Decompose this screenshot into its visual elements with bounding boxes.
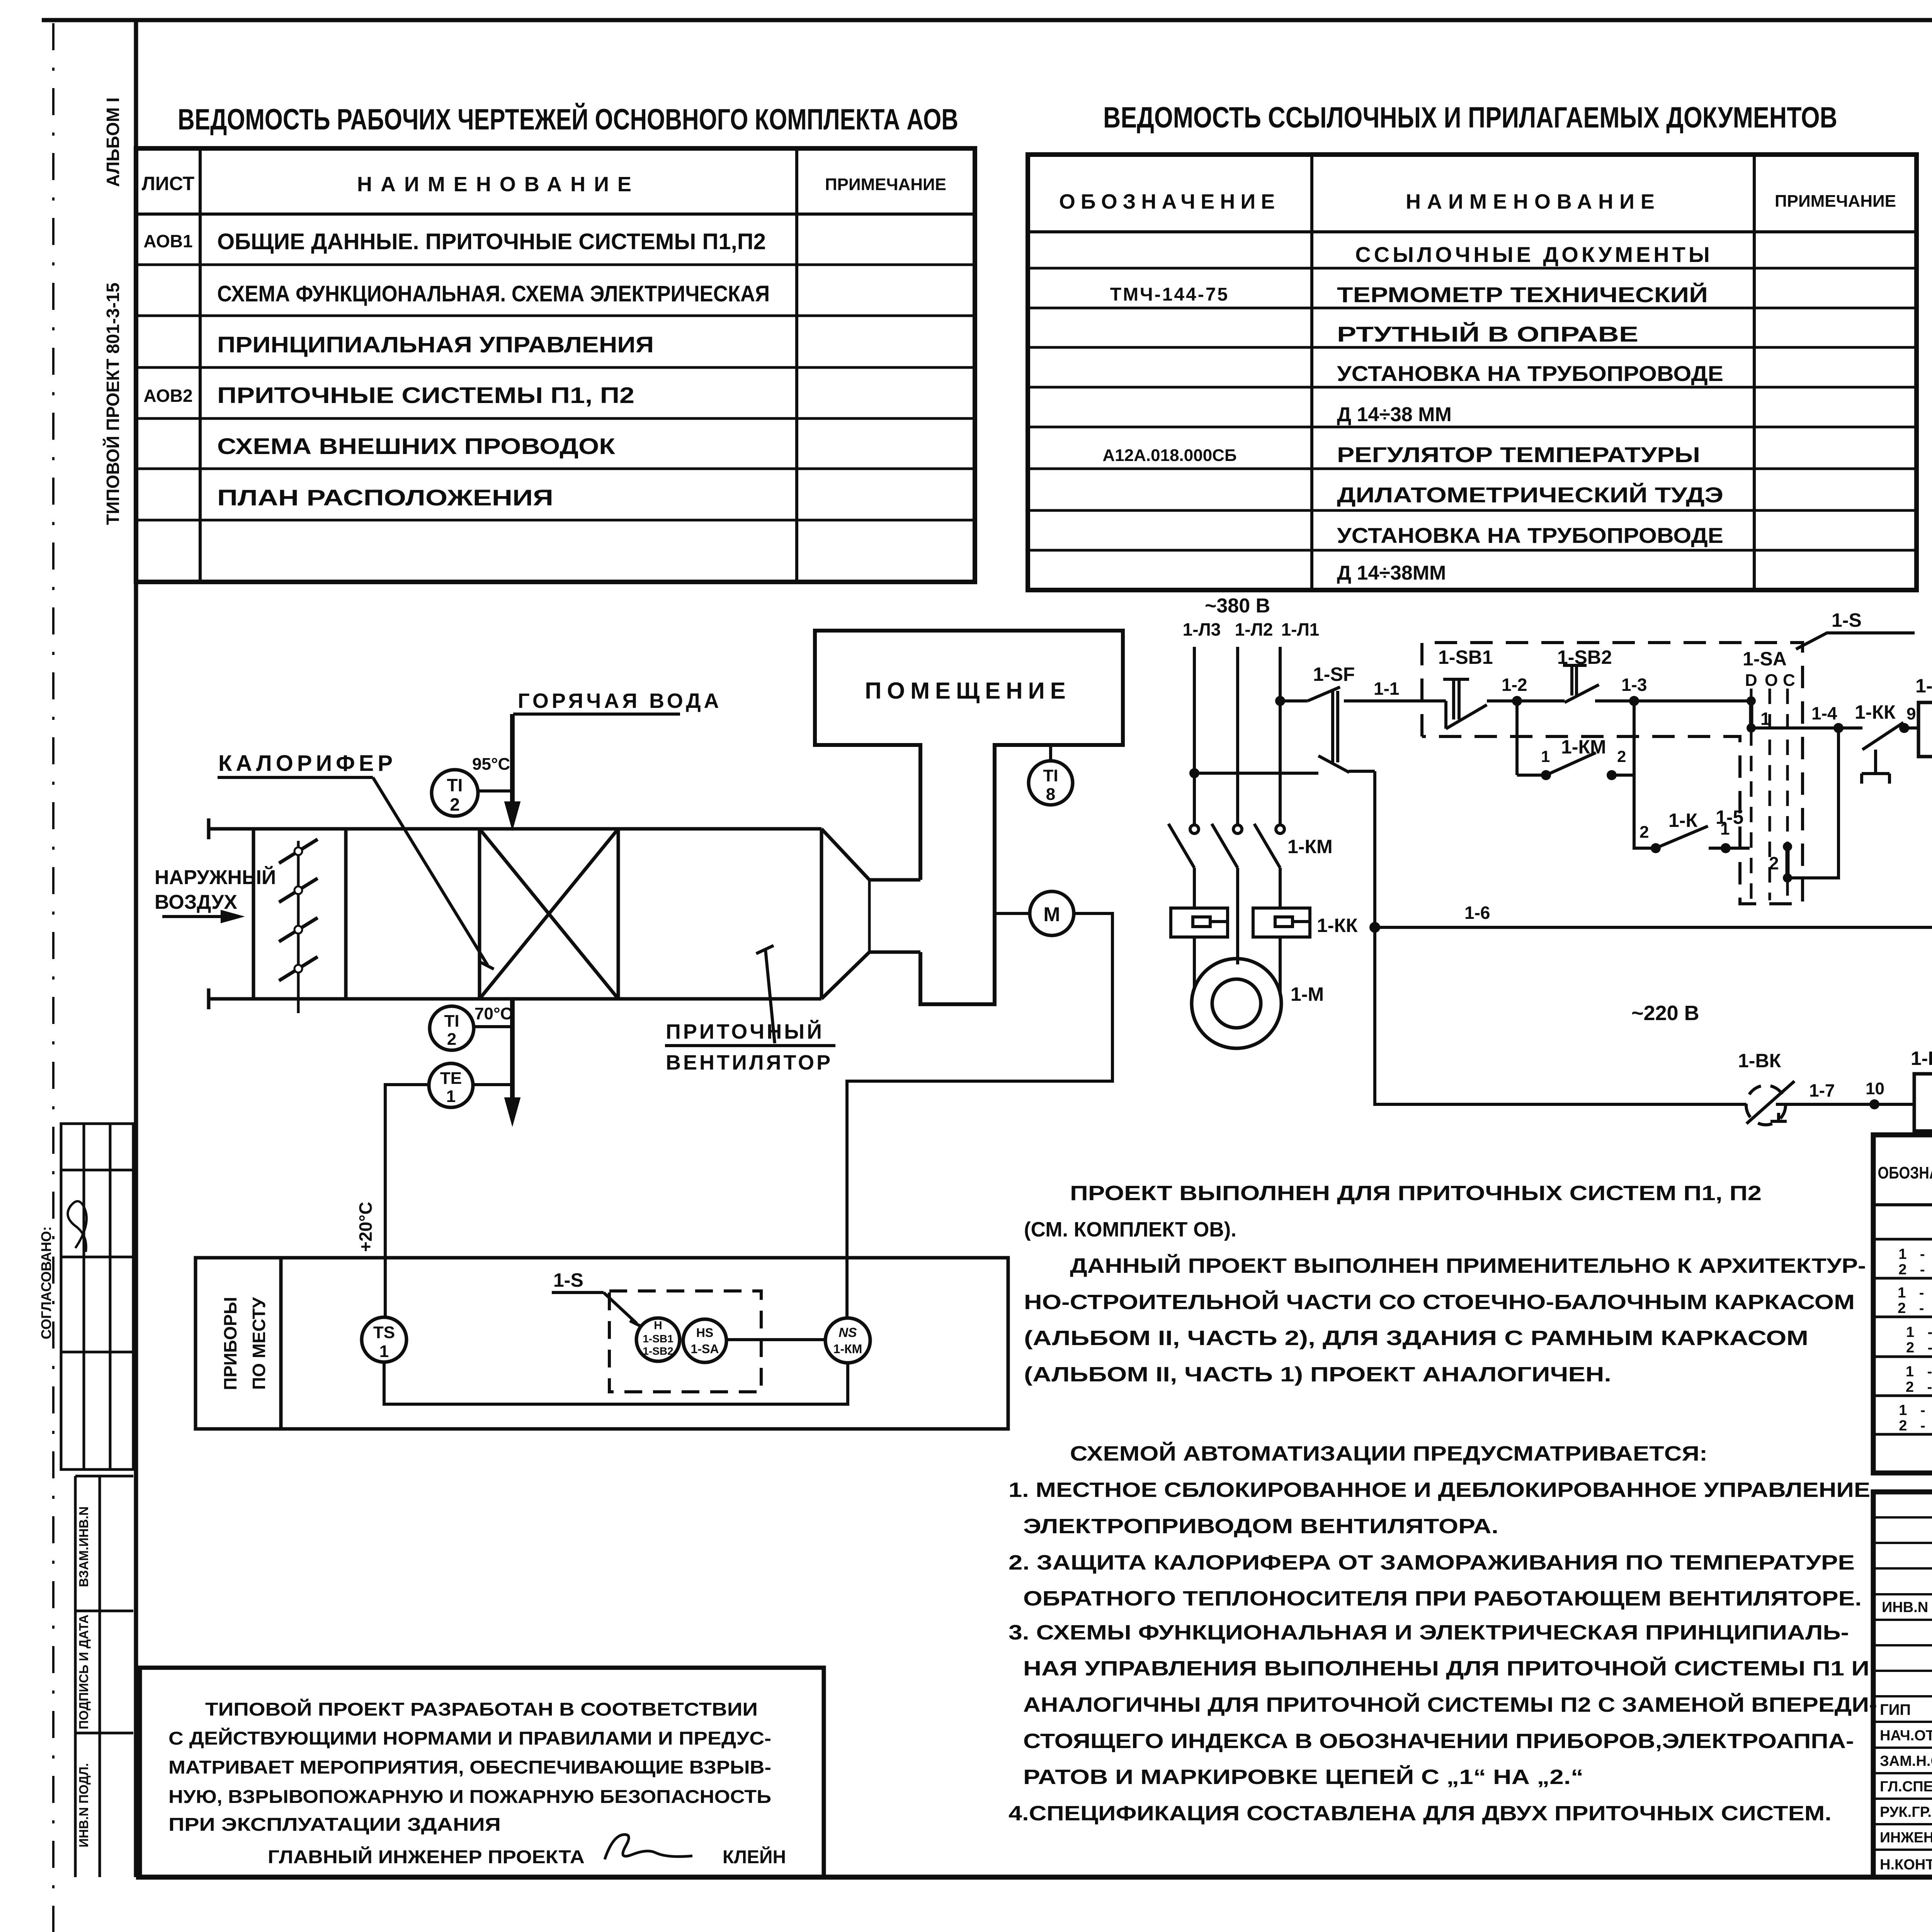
svg-text:ртутный в оправе: ртутный в оправе <box>1337 322 1638 346</box>
svg-text:Примечание: Примечание <box>1775 192 1896 211</box>
svg-text:Лист: Лист <box>142 173 194 194</box>
wire: duct to M <box>995 912 1030 915</box>
left stamp: Согласовано block <box>61 1124 133 1469</box>
wire down-left to regulator circuit <box>1375 927 1746 1104</box>
svg-text:2: 2 <box>450 794 460 815</box>
relay coil 1-К <box>1914 1074 1932 1131</box>
wire 1-1 <box>1344 699 1446 702</box>
svg-text:1-КМ: 1-КМ <box>1561 736 1606 758</box>
svg-text:1: 1 <box>379 1342 389 1361</box>
svg-text:TS: TS <box>373 1323 395 1342</box>
svg-text:1-SB2: 1-SB2 <box>643 1345 673 1357</box>
thermometer TI-2 (70°C) <box>430 1006 512 1050</box>
start button 1-SB1 <box>1443 679 1517 729</box>
svg-text:Д 14÷38 мм: Д 14÷38 мм <box>1337 403 1452 426</box>
temperature regulator contact 1-ВК <box>1746 1081 1794 1125</box>
svg-text:2 - КМ: 2 - КМ <box>1898 1300 1932 1316</box>
wire 1-3 to switch 1-SA <box>1634 699 1751 702</box>
svg-text:1-КК: 1-КК <box>1855 701 1896 723</box>
svg-text:Общие данные. Приточные систем: Общие данные. Приточные системы П1,П2 <box>217 229 766 254</box>
note box: Типовой проект разработан... <box>140 1668 824 1877</box>
switch 1-SA dashed position lines <box>1751 689 1787 900</box>
svg-text:2 - ВК: 2 - ВК <box>1898 1262 1932 1278</box>
svg-text:Данный проект выполнен примени: Данный проект выполнен применительно к а… <box>1070 1254 1866 1277</box>
control tap wire down from SF to node 1-КК <box>1373 771 1376 927</box>
svg-text:1: 1 <box>1760 709 1770 729</box>
svg-text:1-SB2: 1-SB2 <box>1557 646 1612 668</box>
svg-text:АОВ1: АОВ1 <box>143 231 192 251</box>
svg-text:NS: NS <box>838 1325 857 1340</box>
local thermostat TS-1 <box>362 1317 406 1362</box>
svg-text:обратного теплоносителя при ра: обратного теплоносителя при работающем в… <box>1023 1587 1862 1610</box>
svg-text:Подпись и дата: Подпись и дата <box>77 1614 91 1729</box>
svg-text:матривает мероприятия, обеспеч: матривает мероприятия, обеспечивающие вз… <box>168 1757 771 1778</box>
svg-text:2: 2 <box>1769 853 1779 873</box>
node 1-4 <box>1833 723 1844 733</box>
svg-text:План расположения: План расположения <box>217 485 553 510</box>
svg-text:(альбом II, часть 1) проект ан: (альбом II, часть 1) проект аналогичен. <box>1024 1363 1611 1386</box>
svg-text:Нач.отд.: Нач.отд. <box>1880 1728 1932 1744</box>
svg-text:А12А.018.000СБ: А12А.018.000СБ <box>1102 446 1236 465</box>
svg-text:М: М <box>1043 903 1060 926</box>
interlock contact 1-К <box>1656 826 1750 848</box>
svg-text:Д 14÷38мм: Д 14÷38мм <box>1337 562 1446 584</box>
control post 1-S dashed outline <box>1422 643 1803 904</box>
svg-text:1-К: 1-К <box>1668 810 1697 831</box>
svg-text:Рук.гр.: Рук.гр. <box>1880 1804 1932 1820</box>
svg-text:1-3: 1-3 <box>1621 675 1647 695</box>
phase wire 1-Л3 <box>1193 647 1196 825</box>
heater (калорифер) box with X <box>480 829 618 999</box>
svg-text:HS: HS <box>696 1326 713 1340</box>
left stamp: Взам.инв.N / Подпись и дата / Инв.N подл. <box>75 1476 133 1877</box>
svg-text:1 - S: 1 - S <box>1906 1364 1932 1380</box>
svg-text:Наименование: Наименование <box>357 173 640 196</box>
svg-text:8: 8 <box>1046 785 1055 804</box>
svg-text:1-1: 1-1 <box>1374 679 1399 699</box>
svg-text:Схема внешних проводок: Схема внешних проводок <box>217 434 616 459</box>
contactor coil 1-КМ <box>1918 702 1932 757</box>
louver rod <box>297 841 300 1013</box>
svg-text:2: 2 <box>1617 747 1626 765</box>
svg-text:Главный инженер проекта: Главный инженер проекта <box>268 1846 585 1867</box>
svg-text:дилатометрический ТУДЭ: дилатометрический ТУДЭ <box>1337 483 1723 507</box>
svg-text:(альбом II, часть 2), для здан: (альбом II, часть 2), для здания с рамны… <box>1024 1327 1808 1350</box>
svg-text:1: 1 <box>1541 747 1550 765</box>
svg-text:вентилятор: вентилятор <box>666 1051 833 1074</box>
svg-text:TE: TE <box>440 1069 462 1088</box>
thermal relay heaters 1-КК <box>1171 908 1310 993</box>
svg-text:Приточный: Приточный <box>666 1020 824 1043</box>
svg-text:ная управления выполнены для: ная управления выполнены для приточной с… <box>1023 1656 1869 1680</box>
room (Помещение) box <box>815 631 1123 1004</box>
svg-text:1-Л3: 1-Л3 <box>1183 619 1221 639</box>
heating return pipe with arrow <box>505 999 520 1126</box>
svg-text:1-SB1: 1-SB1 <box>1438 646 1493 668</box>
svg-text:Ссылочные документы: Ссылочные документы <box>1355 242 1713 267</box>
wire 1-6 <box>1375 926 1932 929</box>
wire: M to NS relay down-left run <box>847 913 1112 1318</box>
svg-text:1-2: 1-2 <box>1502 675 1527 695</box>
fan section outlet cone <box>821 829 920 999</box>
node on 1-Л3 <box>1189 768 1199 778</box>
svg-text:1 - К: 1 - К <box>1906 1324 1932 1340</box>
svg-text:Типовой проект 801-3-15: Типовой проект 801-3-15 <box>103 282 123 525</box>
svg-text:~220 В: ~220 В <box>1631 1002 1699 1025</box>
main frame left <box>134 20 138 1877</box>
svg-text:Гл.спец.: Гл.спец. <box>1880 1779 1932 1795</box>
node 1-3 <box>1629 696 1639 706</box>
svg-text:1-SB1: 1-SB1 <box>643 1333 673 1345</box>
svg-text:принципиальная управления: принципиальная управления <box>217 332 654 357</box>
svg-text:1-SA: 1-SA <box>1743 648 1787 670</box>
svg-text:2 - К: 2 - К <box>1906 1340 1932 1356</box>
control post 1-S dashed box <box>609 1291 761 1392</box>
hot water supply pipe with arrow <box>505 714 680 830</box>
svg-text:Схема функциональная. Схема эл: Схема функциональная. Схема электрическа… <box>217 281 770 306</box>
motor M circle <box>1030 891 1074 935</box>
svg-text:1 - SF: 1 - SF <box>1899 1402 1932 1418</box>
svg-text:1-М: 1-М <box>1291 983 1324 1005</box>
motor 1-М <box>1192 959 1281 1048</box>
svg-text:Наименование: Наименование <box>1406 190 1661 213</box>
svg-text:Зам.н.о.: Зам.н.о. <box>1880 1753 1932 1769</box>
svg-text:1-S: 1-S <box>553 1269 583 1291</box>
svg-text:1 - КМ: 1 - КМ <box>1898 1285 1932 1301</box>
svg-text:ГИП: ГИП <box>1880 1701 1911 1718</box>
svg-text:TI: TI <box>444 1012 459 1031</box>
svg-text:ную, взрывопожарную и пожарную: ную, взрывопожарную и пожарную безопасно… <box>168 1787 771 1807</box>
general notes paragraph <box>1009 1182 1877 1825</box>
svg-text:1-КМ: 1-КМ <box>833 1342 862 1356</box>
svg-text:Калорифер: Калорифер <box>218 751 396 776</box>
local instruments strip (Приборы по месту) <box>196 1258 1008 1429</box>
svg-text:Клейн: Клейн <box>723 1846 786 1867</box>
svg-text:70°C: 70°C <box>474 1004 512 1023</box>
svg-text:2: 2 <box>447 1030 456 1049</box>
svg-text:1-КМ: 1-КМ <box>1287 836 1333 857</box>
svg-text:Взам.инв.N: Взам.инв.N <box>77 1507 91 1587</box>
svg-text:Регулятор температуры: Регулятор температуры <box>1337 442 1700 467</box>
svg-text:Типовой проект разработан в со: Типовой проект разработан в соответствии <box>205 1699 758 1720</box>
svg-text:Согласовано:: Согласовано: <box>38 1226 54 1339</box>
svg-text:Наружный: Наружный <box>155 866 276 889</box>
svg-text:1-КМ: 1-КМ <box>1915 675 1932 697</box>
node 10 lower <box>1869 1099 1879 1109</box>
svg-text:Проект выполнен для приточных: Проект выполнен для приточных систем П1,… <box>1070 1182 1762 1205</box>
svg-text:1-Л1: 1-Л1 <box>1281 619 1320 639</box>
pushbuttons Н 1-SB1 1-SB2 circle <box>636 1318 680 1361</box>
node 1-КК on wire 1-6 <box>1369 922 1380 933</box>
svg-text:4.Спецификация составлена для: 4.Спецификация составлена для двух прито… <box>1009 1802 1832 1825</box>
wire contact1 to node 1-4 <box>1751 726 1838 730</box>
wire contact2 up to node 1-4 <box>1787 728 1838 878</box>
air duct top wall <box>209 827 821 831</box>
phase wire 1-Л1 <box>1279 647 1282 825</box>
svg-text:АОВ2: АОВ2 <box>143 386 192 406</box>
switch 1-SA contact 1 <box>1747 696 1756 733</box>
louver blades <box>279 839 318 981</box>
svg-text:1-ВК: 1-ВК <box>1738 1050 1781 1071</box>
svg-text:2: 2 <box>1639 823 1649 842</box>
svg-text:1-КК: 1-КК <box>1317 915 1358 936</box>
thermometer TI-8 room <box>1029 745 1073 805</box>
svg-text:по месту: по месту <box>249 1297 269 1390</box>
svg-text:1-4: 1-4 <box>1811 703 1837 723</box>
thermometer TI-2 (95°C) <box>432 770 512 816</box>
duct inlet end ticks <box>207 818 211 839</box>
svg-text:Обозначение: Обозначение <box>1878 1163 1932 1182</box>
svg-text:Приточные системы П1, П2: Приточные системы П1, П2 <box>217 383 634 408</box>
svg-text:1-SA: 1-SA <box>691 1342 719 1356</box>
svg-text:1-6: 1-6 <box>1464 903 1490 923</box>
svg-text:электроприводом вентилятора.: электроприводом вентилятора. <box>1023 1515 1498 1538</box>
svg-text:Альбом I: Альбом I <box>103 97 123 187</box>
svg-text:О: О <box>1765 671 1778 690</box>
svg-text:TI: TI <box>447 775 463 795</box>
svg-text:3. Схемы функциональная и элек: 3. Схемы функциональная и электрическая … <box>1009 1621 1849 1644</box>
svg-text:Обозначение: Обозначение <box>1059 190 1280 213</box>
louver section walls <box>252 829 255 999</box>
svg-text:1. Местное сблокированное и де: 1. Местное сблокированное и деблокирован… <box>1009 1478 1870 1502</box>
contactor main contacts 1-КМ (three poles) <box>1168 824 1284 964</box>
svg-text:Н: Н <box>654 1319 662 1332</box>
svg-text:95°C: 95°C <box>472 755 510 774</box>
title block outer <box>1873 1492 1932 1877</box>
temperature sensor TE-1 <box>385 1063 512 1317</box>
svg-text:2 - SF: 2 - SF <box>1899 1418 1932 1434</box>
svg-text:1-Л2: 1-Л2 <box>1235 619 1273 639</box>
phase wire 1-Л2 <box>1236 647 1239 825</box>
svg-text:Инженер: Инженер <box>1880 1830 1932 1846</box>
svg-text:2 - S: 2 - S <box>1906 1379 1932 1395</box>
svg-text:Установка на трубопроводе: Установка на трубопроводе <box>1337 523 1723 548</box>
svg-text:Горячая вода: Горячая вода <box>518 689 722 713</box>
starter lamp NS 1-КМ circle <box>825 1318 870 1363</box>
chief engineer signature <box>605 1835 692 1859</box>
svg-text:ТМЧ-144-75: ТМЧ-144-75 <box>1110 284 1229 305</box>
node on 1-Л1 <box>1275 696 1285 706</box>
breaker 1-SF upper pole <box>1280 687 1340 762</box>
svg-text:D: D <box>1745 671 1757 690</box>
svg-text:но-строительной части со стоеч: но-строительной части со стоечно-балочны… <box>1024 1290 1855 1314</box>
thermal contact 1-КК <box>1838 723 1918 784</box>
air duct bottom wall <box>209 997 821 1001</box>
svg-text:Схемой автоматизации предусмат: Схемой автоматизации предусматривается: <box>1070 1442 1708 1465</box>
svg-text:TI: TI <box>1043 766 1058 785</box>
svg-text:Приборы: Приборы <box>220 1297 240 1390</box>
selfhold contact 1-КМ <box>1517 701 1634 775</box>
svg-text:при эксплуатации здания: при эксплуатации здания <box>168 1815 501 1835</box>
node 9 <box>1899 723 1909 733</box>
table: referenced documents <box>1028 155 1917 590</box>
svg-text:Помещение: Помещение <box>865 678 1071 704</box>
page left edge dashed <box>52 23 54 1932</box>
stop button 1-SB2 <box>1517 665 1634 702</box>
svg-text:1-5: 1-5 <box>1716 806 1743 828</box>
svg-text:Ведомость рабочих чертежей осн: Ведомость рабочих чертежей основного ком… <box>178 103 958 136</box>
svg-text:2. Защита калорифера от замора: 2. Защита калорифера от замораживания по… <box>1009 1551 1855 1574</box>
breaker 1-SF lower pole <box>1194 756 1375 773</box>
svg-text:10: 10 <box>1866 1079 1884 1098</box>
wire 1-7 <box>1786 1103 1914 1106</box>
svg-text:ратов и маркировке цепей с „1“: ратов и маркировке цепей с „1“ на „2.“ <box>1023 1765 1583 1789</box>
svg-text:9: 9 <box>1906 704 1916 723</box>
specification table <box>1873 1135 1932 1473</box>
label 1-S with leader <box>1796 633 1915 649</box>
svg-text:Инв.N: Инв.N <box>1882 1599 1928 1616</box>
page top border <box>42 18 1932 22</box>
svg-text:1-SF: 1-SF <box>1313 663 1355 685</box>
svg-text:~380 В: ~380 В <box>1205 595 1270 617</box>
svg-text:+20°C: +20°C <box>355 1202 376 1252</box>
svg-text:Ведомость ссылочных и прилагае: Ведомость ссылочных и прилагаемых докуме… <box>1103 101 1837 134</box>
svg-text:с действующими нормами и прави: с действующими нормами и правилами и пре… <box>168 1728 771 1749</box>
svg-text:1-К: 1-К <box>1911 1048 1932 1069</box>
table: working drawings list <box>136 148 975 582</box>
svg-text:Термометр технический: Термометр технический <box>1337 282 1708 307</box>
main frame bottom <box>136 1875 1932 1880</box>
svg-text:стоящего индекса в обозначении: стоящего индекса в обозначении приборов,… <box>1023 1730 1854 1753</box>
svg-text:воздух: воздух <box>155 891 237 913</box>
svg-text:Инв.N подл.: Инв.N подл. <box>77 1763 91 1847</box>
selector switch HS 1-SA circle <box>683 1319 726 1362</box>
svg-text:Примечание: Примечание <box>825 175 946 194</box>
wire: TS to NS bottom run <box>384 1362 848 1404</box>
svg-text:(см. комплект ОВ).: (см. комплект ОВ). <box>1024 1218 1236 1241</box>
svg-text:1 - ВК: 1 - ВК <box>1898 1246 1932 1262</box>
svg-text:1: 1 <box>446 1087 456 1106</box>
svg-text:Н.контр: Н.контр <box>1880 1857 1932 1873</box>
wire HS to NS <box>726 1338 825 1341</box>
svg-text:Установка на трубопроводе: Установка на трубопроводе <box>1337 361 1723 386</box>
svg-text:1-7: 1-7 <box>1809 1080 1835 1100</box>
switch 1-SA contact 2 <box>1783 842 1792 883</box>
wire node 1-3 down <box>1634 701 1656 848</box>
node 1-2 <box>1512 696 1522 706</box>
svg-text:С: С <box>1783 671 1795 690</box>
svg-text:аналогичны для приточной систе: аналогичны для приточной системы П2 с за… <box>1023 1693 1877 1716</box>
svg-text:1-S: 1-S <box>1832 609 1862 631</box>
signature in Согласовано <box>68 1201 87 1252</box>
